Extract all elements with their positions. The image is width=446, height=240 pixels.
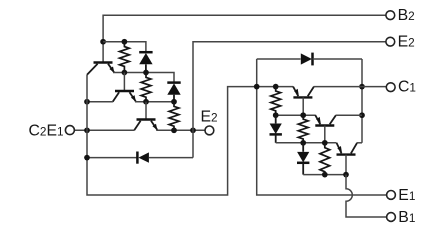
wire E1 rail left — [257, 59, 387, 195]
node R1 top — [122, 39, 128, 45]
wire Q5 base row — [276, 142, 337, 144]
diode D3 — [137, 152, 193, 164]
terminal E1 — [387, 187, 416, 204]
transistor Q6 — [337, 143, 358, 155]
wire Q1 emitter row — [113, 73, 174, 83]
wire Q5 base lead — [324, 126, 326, 143]
terminal B2 — [386, 7, 415, 24]
wire C1 lead — [362, 86, 386, 88]
diode D2 — [167, 83, 180, 102]
resistor R7 — [320, 143, 330, 175]
terminal E2 middle — [201, 109, 218, 135]
svg-text:B1: B1 — [398, 209, 415, 226]
node E1 rail row A — [254, 84, 260, 90]
transistor Q1 — [87, 63, 114, 75]
terminal C2E1 — [29, 123, 75, 140]
node E2 tap — [190, 127, 196, 133]
resistor R1 — [120, 42, 130, 73]
svg-text:E2: E2 — [201, 109, 218, 126]
node R6 bottom / D6 top — [300, 140, 306, 146]
transistor Q5 — [315, 115, 336, 125]
diode D6 — [297, 143, 309, 175]
terminal C1 — [386, 79, 416, 96]
diode D4 — [257, 53, 362, 66]
diode D5 — [270, 115, 282, 143]
wire Q2 emitter row — [135, 101, 177, 103]
svg-text:C1: C1 — [398, 79, 416, 96]
node D1 anode / R2 top — [143, 70, 149, 76]
diode D1 — [139, 52, 152, 72]
svg-text:E1: E1 — [398, 187, 415, 204]
svg-text:B2: B2 — [398, 7, 415, 24]
node Q6 base / B1 — [343, 172, 349, 178]
node Q5 collector rail — [359, 112, 365, 118]
svg-text:E2: E2 — [398, 34, 415, 51]
wire Q1 base row — [103, 42, 146, 53]
node B2 lead junction — [100, 39, 106, 45]
node R7 bottom — [322, 172, 328, 178]
wire Q4 base row — [276, 114, 316, 116]
wire Q3 base lead — [145, 102, 147, 120]
wire Q3 emitter row to E2 — [156, 129, 205, 131]
node R5 bottom / D5 top — [273, 112, 279, 118]
node Q2 base / R1 bottom — [122, 70, 128, 76]
wire B1 lead with hop over E1 — [346, 175, 387, 217]
wire Q4 collector row — [314, 86, 362, 88]
resistor R5 — [271, 87, 281, 116]
wire Q6 base lead — [345, 155, 347, 175]
terminal B1 — [387, 209, 416, 226]
wire D3 row — [87, 157, 137, 159]
wire Q5 collector row — [336, 114, 362, 116]
transistor Q4 — [293, 87, 314, 98]
wire Q6 base row — [303, 174, 346, 176]
node R6 top — [300, 112, 306, 118]
node Q5 base / R7 top — [322, 140, 328, 146]
node C1 tap — [359, 84, 365, 90]
node R3 bottom — [171, 127, 177, 133]
node R5 top — [273, 84, 279, 90]
node C2E1 junction — [84, 127, 90, 133]
node Q2 collector rail junction — [84, 99, 90, 105]
wire Q6 collector to rail — [357, 142, 362, 144]
wire Q2 base lead — [123, 73, 125, 92]
node Q3 base tap — [143, 99, 149, 105]
collector rail C2E1 loop wire — [87, 75, 293, 195]
wire Q2 collector to rail — [87, 101, 113, 103]
transistor Q3 — [134, 120, 157, 131]
resistor R2 — [141, 73, 151, 102]
node D3 cathode junction — [84, 155, 90, 161]
wire B2 top rail — [103, 15, 386, 62]
wire Q4 base lead — [302, 97, 304, 115]
node D2 anode / R3 top — [171, 99, 177, 105]
terminal E2 top — [386, 34, 415, 51]
wire E2 sense vertical and top rail — [193, 42, 386, 158]
transistor Q2 — [113, 91, 136, 102]
collector rail C1 — [361, 59, 363, 143]
resistor R3 — [169, 102, 179, 131]
wire C2E1 row to Q3 collector — [75, 129, 135, 131]
resistor R6 — [298, 115, 308, 143]
svg-text:C2E1: C2E1 — [29, 123, 64, 140]
